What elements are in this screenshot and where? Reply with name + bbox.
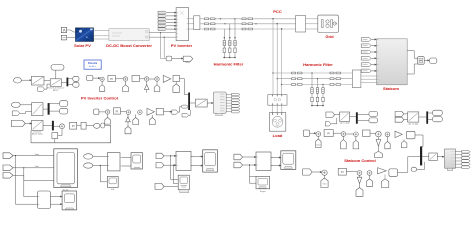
wire to goto tag B — [164, 111, 172, 112]
wire PLL inputs — [331, 115, 340, 124]
sum A3 — [145, 77, 149, 81]
block discrete mean C — [32, 120, 44, 135]
inport Vabc — [3, 153, 13, 159]
wire VI measurement 2 to Statcom — [361, 76, 377, 82]
svg-text:Load: Load — [273, 133, 283, 138]
from tag chain1 — [303, 130, 309, 136]
sum S1 — [316, 132, 321, 137]
goto oval T — [411, 167, 417, 171]
wire group4 to block — [243, 156, 256, 165]
wire distribution feeder C — [282, 84, 353, 86]
wire mux to dq0-abc — [422, 156, 429, 158]
constant block Irradiance — [61, 27, 66, 32]
from tag row A — [87, 76, 93, 81]
block PWM generator left — [213, 92, 226, 116]
inport Vdc scope — [3, 173, 13, 179]
block Solar PV — [75, 28, 93, 42]
constant under sum A1 — [99, 81, 104, 91]
wire to product 1 — [21, 80, 31, 81]
constant under gain B — [149, 115, 155, 125]
wire chain2 to mux — [398, 157, 421, 173]
wire block to scope2 — [122, 158, 131, 167]
mux bar PWM left — [188, 93, 190, 111]
svg-text:abc to dq0: abc to dq0 — [408, 122, 419, 125]
goto tag C oval — [94, 123, 100, 128]
sum B1 — [105, 110, 109, 114]
svg-text:Harmonic Filter: Harmonic Filter — [303, 62, 333, 67]
harmonic filter 1 branch terminals — [224, 37, 236, 58]
constant under sum S1 — [316, 136, 322, 147]
wire Solar PV to DC-DC Boost Converter — [94, 31, 110, 39]
from tag row B theta — [12, 111, 20, 116]
wire mux to goto row B — [50, 104, 60, 112]
series RLC branch symbols feeder set 1 — [292, 72, 303, 85]
svg-text:Vdc: Vdc — [111, 189, 115, 191]
block PI A — [108, 76, 116, 82]
scope group2 — [131, 153, 143, 169]
constant under sum S2 — [341, 136, 347, 149]
wire tags to inverter — [167, 12, 176, 30]
svg-text:Vref: Vref — [323, 183, 327, 186]
svg-text:Solar PV: Solar PV — [74, 43, 91, 48]
goto tag Vpv — [73, 76, 79, 81]
wire sensor to goto tag — [172, 58, 183, 59]
wire MPPT to mux — [62, 82, 67, 84]
constant under sum B1 — [105, 114, 111, 124]
gain S — [395, 131, 402, 137]
sum B3 — [138, 110, 142, 114]
series RLC branch symbols line set 2 — [242, 18, 253, 30]
svg-text:Discrete: Discrete — [88, 62, 98, 65]
svg-text:Mean Value: Mean Value — [32, 134, 44, 136]
block THD — [37, 191, 50, 209]
wire Statcom outputs — [407, 51, 417, 74]
harmonic filter 1 shunt branches — [223, 19, 236, 58]
sum T2 — [357, 171, 362, 176]
small scope4 — [256, 177, 270, 194]
mux bar current — [426, 111, 428, 123]
mux bar MPPT — [67, 78, 69, 87]
wire drops to 3D scope — [164, 156, 178, 187]
wire to sum T1 — [312, 171, 322, 172]
harmonic filter 1 branch elements — [223, 41, 236, 53]
junction dot group2 — [100, 165, 101, 166]
from tag group2 I — [84, 163, 93, 168]
goto tag Uref upper — [182, 105, 188, 108]
svg-text:Harmonic Filter: Harmonic Filter — [214, 62, 244, 67]
block power measurement — [107, 153, 122, 171]
block saturation C — [81, 122, 86, 129]
sum S4 — [376, 131, 382, 137]
goto tag stack pwm outputs — [226, 93, 240, 113]
block abc-dq0 row B — [32, 103, 43, 116]
constant under sum S5 — [385, 137, 390, 149]
wire to sum S3 — [346, 133, 354, 135]
block abc-dq0 current — [408, 112, 419, 126]
junction dots group3 — [170, 155, 174, 166]
block T out — [389, 169, 398, 176]
scope THD — [62, 191, 77, 210]
svg-text:PI: PI — [116, 109, 119, 113]
sum S5 — [385, 132, 390, 137]
from tag Vdc long — [11, 120, 25, 126]
sum A1 — [100, 77, 104, 81]
series RLC branch symbols feeder set 2 — [330, 72, 341, 85]
constant under gain T — [381, 174, 388, 187]
block statcom PWM generator — [445, 149, 456, 171]
wire mux C to sum C — [54, 125, 60, 127]
wire demux to goto — [424, 60, 429, 61]
from tag MPPT V — [14, 77, 22, 83]
block Load — [269, 113, 285, 132]
wire THD to scope1 — [51, 196, 63, 205]
from tag MPPT I — [38, 87, 45, 91]
big scope block — [54, 149, 78, 188]
svg-text:DC-DC Boost Converter: DC-DC Boost Converter — [106, 43, 152, 48]
from tag stack Statcom inputs — [361, 38, 371, 73]
block 3D scope — [178, 175, 189, 192]
from tag Uref lower — [182, 114, 189, 117]
wire to MPPT block — [44, 81, 50, 90]
wire to sum B2 — [121, 111, 127, 113]
wire row B inputs — [20, 105, 32, 114]
feedback wire C — [31, 125, 111, 142]
svg-text:PI: PI — [327, 132, 330, 136]
goto tag Statcom output — [429, 58, 437, 64]
wire group3 block to scope — [191, 156, 203, 166]
block C PI — [70, 122, 77, 129]
svg-text:PI: PI — [341, 170, 344, 174]
from tag Iabc 2 — [395, 117, 404, 122]
from tag PLL input — [326, 112, 335, 117]
wire to abc-dq0 block — [404, 114, 408, 120]
small scope2 — [107, 176, 118, 191]
wire PI A to sum A2 — [116, 78, 124, 80]
goto tag B out — [172, 110, 178, 114]
wire distribution feeder B — [277, 78, 352, 80]
block group3 measurement — [176, 151, 193, 170]
svg-text:MPPT: MPPT — [53, 90, 60, 92]
goto tag Ipv — [73, 82, 79, 87]
svg-text:Qref: Qref — [316, 143, 320, 146]
goto tag Vd — [60, 101, 68, 107]
block transfer A — [132, 76, 140, 82]
constant under sum T1 — [321, 175, 328, 187]
gain under sum T2 — [356, 175, 363, 196]
sum T1 — [322, 170, 327, 175]
sum S3 — [354, 132, 359, 137]
annotation block blue — [84, 60, 101, 69]
from tag group4 a — [234, 154, 243, 160]
from tag group2 V — [84, 154, 93, 159]
block modulator — [195, 99, 207, 107]
goto tag Idq 2 — [433, 117, 443, 122]
goto tag Vdc — [183, 56, 193, 63]
wire distribution feeder A — [273, 72, 352, 74]
wire PLL to mux — [350, 116, 356, 118]
wire modulator to PWM generator — [207, 102, 213, 103]
inport Iabc — [3, 165, 13, 171]
wire oval to dq0-abc — [417, 162, 425, 170]
svg-text:PV Inverter: PV Inverter — [171, 43, 193, 48]
from tag Iabc 1 — [395, 111, 404, 116]
wire DC link boost to inverter — [149, 33, 176, 38]
constant block Temperature — [61, 35, 66, 40]
series RLC branch symbols line set 1 — [205, 18, 216, 30]
wire Uref lower to mux — [189, 110, 191, 115]
wire chain1 to mux — [415, 135, 423, 147]
block dq0-abc statcom — [429, 153, 438, 161]
block K feedback — [52, 133, 58, 139]
block S PI 1 — [324, 130, 333, 137]
block VI measurement 1 — [189, 16, 200, 30]
svg-text:abc to dq0: abc to dq0 — [340, 122, 351, 125]
from tag row B V — [11, 102, 20, 107]
goto tag Vq — [60, 108, 68, 114]
sum T3 — [367, 171, 372, 176]
wire to sum T2 — [346, 171, 357, 173]
wire to sum S4 — [370, 132, 376, 134]
wire to sum S2 — [333, 132, 341, 134]
goto tag Vdq 2 — [369, 118, 378, 123]
wire to statcom PWM generator — [437, 156, 444, 157]
gain B — [147, 108, 155, 115]
wire MPPT up to goto D — [54, 70, 57, 79]
wire Temperature to Solar PV — [67, 37, 76, 39]
block Statcom output demux — [418, 57, 425, 64]
wire abc-dq0 to mux — [419, 116, 426, 118]
block Grid — [318, 15, 339, 32]
mux bar C — [52, 121, 54, 131]
harmonic filter 2 branch elements — [311, 88, 324, 102]
constant under row B mid — [133, 115, 139, 125]
wire mux to gotos — [68, 79, 73, 85]
wire to mux C — [43, 124, 52, 126]
sum A4 — [155, 77, 159, 81]
wire dc taps to sensor — [160, 57, 166, 58]
constant under sum A4 — [154, 81, 160, 91]
block DC link sensor — [166, 56, 172, 61]
wire PCC to Grid — [309, 19, 318, 29]
wire to sum A3 — [140, 78, 145, 80]
goto tag stack pulses — [158, 11, 167, 30]
wire group2 to block — [93, 156, 108, 165]
wire PI to saturation C — [77, 125, 81, 127]
svg-text:PI: PI — [110, 77, 113, 81]
wire to mux row B — [43, 108, 48, 110]
wire phase B inverter to PCC — [200, 23, 296, 25]
wire drop to small scope4 — [250, 165, 257, 183]
wire to goto C — [86, 125, 94, 127]
junction dots scopes — [15, 155, 25, 168]
svg-text:PV Inverter Control: PV Inverter Control — [81, 96, 118, 101]
junction dots feeder — [311, 72, 323, 85]
wire group4 block to scope — [271, 157, 281, 166]
gain T — [378, 168, 387, 174]
block PLL abc-dq0 — [340, 112, 351, 125]
gain under sum B2 — [125, 114, 131, 133]
svg-text:5e-06 s.: 5e-06 s. — [89, 66, 97, 68]
from tag chain2 — [303, 169, 312, 175]
wire to sum A1 — [93, 77, 100, 78]
wire PWM to statcom tag stack — [455, 152, 461, 168]
wire mux to modulator — [190, 102, 195, 104]
from tag group4 b — [234, 162, 243, 168]
block S mid — [363, 130, 371, 136]
svg-text:PCC: PCC — [273, 9, 282, 14]
goto tag Vdq 1 — [369, 112, 378, 117]
sum C — [60, 124, 65, 129]
goto tag stack statcom pulses — [462, 150, 470, 168]
svg-text:Scope: Scope — [260, 191, 267, 193]
mux bar PLL — [356, 112, 358, 123]
svg-text:Statcom Control: Statcom Control — [344, 158, 375, 163]
wire transformer to load — [273, 105, 282, 112]
from tag group3 b — [156, 163, 164, 168]
wire tags to Statcom — [371, 39, 376, 72]
mux bar statcom pwm — [420, 147, 422, 166]
wire to sum A4 — [149, 78, 155, 80]
wire Irradiance to Solar PV — [67, 30, 76, 32]
constant under sum A2 — [123, 81, 129, 91]
svg-text:Statcom: Statcom — [383, 86, 399, 91]
constant under sum S3 — [353, 137, 359, 149]
gain under sum A3 — [144, 81, 149, 92]
constant under saturation A — [173, 82, 180, 93]
from tag PLL input 2 — [325, 122, 331, 126]
svg-text:STATCOM: STATCOM — [384, 59, 399, 63]
gain under sum S4 — [375, 137, 383, 158]
block saturation A — [173, 76, 180, 82]
wire phase C inverter to PCC — [200, 28, 296, 30]
wire group3 to block — [164, 155, 176, 166]
svg-text:PI: PI — [72, 124, 75, 128]
constant under sum T3 — [366, 175, 372, 186]
wire to sum B1 — [99, 111, 106, 113]
harmonic filter 2 shunt branches — [311, 73, 324, 106]
junction dots distribution — [272, 72, 282, 85]
svg-text:Vabc: Vabc — [35, 154, 40, 156]
svg-text:Grid: Grid — [325, 34, 334, 39]
block S out — [406, 131, 415, 139]
wire drop to small scope2 — [100, 166, 107, 182]
wire mux to goto tags PLL — [358, 115, 369, 121]
wire mux to goto Idq — [428, 113, 432, 119]
wire tag B riser — [178, 107, 182, 113]
junction dot group4 — [249, 164, 250, 165]
wire to block C — [25, 123, 31, 124]
wire drops to THD block — [16, 156, 38, 205]
block PCC measurement — [296, 16, 309, 33]
sum A2 — [123, 77, 127, 81]
goto tag D — [51, 65, 64, 71]
block product 1 — [31, 76, 44, 85]
block Statcom — [377, 39, 408, 85]
wire PCC drops to distribution — [273, 19, 282, 95]
junction dots on phase lines — [220, 18, 283, 30]
block group4 measurement — [256, 152, 273, 170]
block MPPT — [47, 79, 65, 92]
block B saturation — [156, 109, 163, 115]
sum B2 — [126, 110, 130, 114]
goto tag C small — [101, 123, 105, 128]
block T PI — [338, 168, 346, 175]
wire DC link tap down — [160, 32, 165, 58]
block PV Inverter — [176, 8, 189, 41]
goto tag Idq 1 — [433, 110, 443, 115]
from tag row B2 — [94, 109, 99, 115]
constant under block S out — [401, 140, 407, 148]
sum S2 — [341, 132, 346, 137]
gain A — [163, 75, 171, 82]
wire K connections — [55, 129, 62, 143]
wire phase A inverter to PCC — [200, 18, 296, 20]
block B PI — [114, 108, 121, 114]
from tag group3 c — [155, 183, 164, 189]
wire to sum S1 — [310, 133, 316, 134]
block DC-DC Boost Converter — [109, 29, 149, 41]
scope group4 — [281, 151, 296, 170]
svg-text:Iabc: Iabc — [35, 166, 39, 168]
mux bar row B — [48, 103, 50, 115]
block VI measurement 2 — [352, 70, 361, 88]
wire saturation to PWM mux — [180, 79, 189, 95]
scope group3 — [203, 150, 218, 172]
block three-phase transformer — [268, 95, 287, 106]
harmonic filter 2 branch terminals — [311, 105, 323, 106]
from tag group3 a — [156, 153, 164, 158]
wire inports to big scope — [13, 156, 54, 181]
